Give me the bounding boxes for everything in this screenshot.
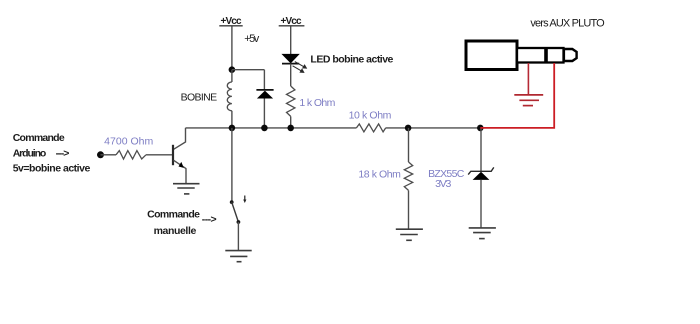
resistor R2 1 k Ohm (vertical zigzag) — [287, 86, 295, 116]
svg-text:3V3: 3V3 — [435, 178, 451, 190]
transistor Q1 (NPN) — [173, 128, 186, 184]
resistor R4 18 k Ohm (vertical zigzag) — [404, 162, 412, 190]
base bar — [172, 145, 174, 165]
wire switch to ground — [237, 222, 239, 251]
label Commande manuelle — [147, 208, 217, 237]
ground (zener) — [469, 228, 496, 239]
svg-text:--->: ---> — [202, 213, 217, 225]
LED light arrows — [293, 62, 307, 73]
svg-text:1 k Ohm: 1 k Ohm — [299, 97, 335, 109]
wire top junction to diode branch (horizontal) — [232, 69, 265, 71]
switch top contact — [230, 200, 234, 204]
wire Vcc2 down to LED — [290, 26, 292, 54]
switch actuator arrow — [243, 196, 246, 204]
junction R2 bottom — [287, 125, 294, 132]
svg-text:5v=bobine active: 5v=bobine active — [13, 162, 91, 174]
jack shaft — [517, 48, 564, 63]
wire input to R1 — [101, 154, 117, 156]
collector — [174, 128, 186, 149]
junction R4 top — [405, 125, 412, 132]
zener diode D3 BZX55C (bar with ticks + up triangle) — [468, 167, 494, 180]
svg-text:BOBINE: BOBINE — [181, 92, 218, 104]
svg-text:10 k Ohm: 10 k Ohm — [349, 110, 392, 122]
svg-text:LED bobine active: LED bobine active — [310, 54, 393, 66]
svg-text:Commande: Commande — [147, 208, 200, 220]
wire diode branch down to D1 — [263, 70, 265, 90]
switch lever — [232, 202, 239, 222]
emitter — [174, 160, 186, 168]
power symbol +Vcc (left, coil branch) — [219, 16, 242, 27]
wire zener to ground — [480, 180, 482, 228]
wire LED to resistor R2 — [290, 64, 292, 86]
inductor L1 BOBINE — [227, 70, 232, 128]
wire main node (R3 right to output junction) — [386, 127, 481, 129]
red ground (jack sleeve) — [514, 95, 543, 106]
wire R2 to node — [290, 116, 292, 128]
label Commande Arduino block — [13, 132, 91, 174]
ground (switch) — [225, 251, 251, 262]
wire node to R4 — [408, 128, 410, 162]
wire main node (collector to R3 left) — [186, 127, 357, 129]
wire Vcc1 down to coil node — [231, 26, 233, 69]
svg-text:--->: ---> — [56, 147, 70, 159]
red wire sleeve to ground — [527, 63, 529, 95]
resistor R1 4700 Ohm (horizontal zigzag) — [116, 151, 146, 159]
switch S1 branch wire — [231, 128, 233, 201]
wire R1 to base — [146, 154, 172, 156]
input node dot — [97, 151, 104, 158]
ground (R4) — [396, 229, 423, 240]
svg-text:manuelle: manuelle — [154, 225, 197, 237]
resistor R3 10 k Ohm (horizontal zigzag) — [356, 124, 385, 132]
wire node to zener — [480, 128, 482, 171]
svg-text:+5v: +5v — [244, 33, 260, 45]
junction coil bottom — [229, 125, 236, 132]
wire R4 to ground — [408, 190, 410, 229]
svg-text:4700 Ohm: 4700 Ohm — [104, 136, 153, 148]
svg-text:Arduino: Arduino — [13, 147, 47, 159]
flyback diode D1 (bar + up triangle) — [256, 90, 273, 128]
ground (emitter) — [173, 184, 200, 194]
junction diode bottom — [261, 125, 268, 132]
jack ring separator — [544, 48, 548, 63]
switch bottom contact — [237, 220, 241, 224]
junction zener / output — [477, 125, 484, 132]
power symbol +Vcc (right, LED branch) — [279, 16, 305, 27]
LED D2 (triangle + bar) — [282, 54, 299, 63]
svg-text:vers AUX PLUTO: vers AUX PLUTO — [530, 18, 605, 30]
svg-text:Commande: Commande — [13, 132, 65, 144]
jack J1 body — [466, 41, 517, 70]
jack tip — [564, 49, 577, 61]
node top junction (coil top) — [229, 66, 236, 73]
red wire tip to node — [480, 63, 554, 128]
svg-text:18 k Ohm: 18 k Ohm — [358, 168, 401, 180]
